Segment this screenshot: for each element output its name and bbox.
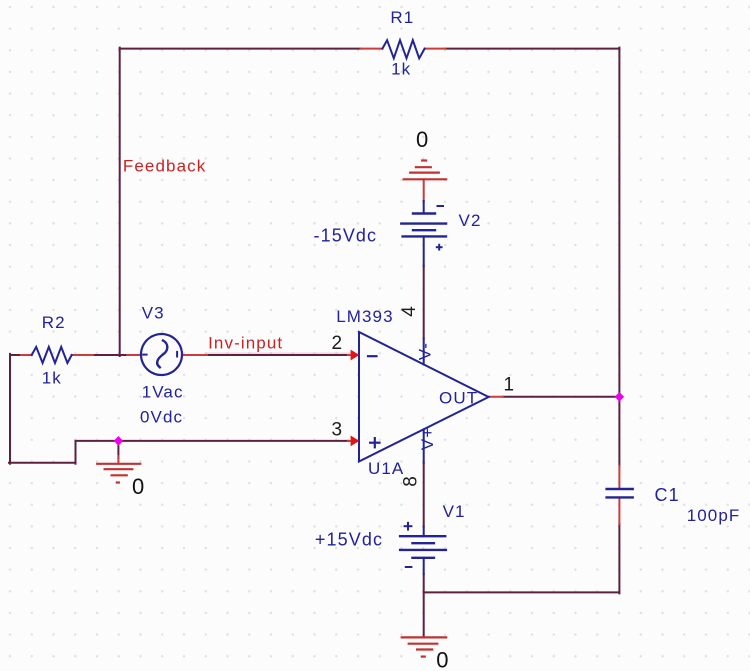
svg-text:8: 8: [401, 476, 422, 487]
svg-text:1k: 1k: [42, 369, 62, 388]
svg-text:LM393: LM393: [336, 307, 393, 326]
svg-text:-15Vdc: -15Vdc: [314, 226, 378, 246]
svg-text:V2: V2: [459, 211, 482, 230]
svg-text:V+: V+: [418, 427, 437, 450]
svg-text:V-: V-: [416, 342, 435, 360]
svg-text:0: 0: [436, 648, 448, 671]
svg-text:1: 1: [504, 375, 515, 396]
svg-text:+15Vdc: +15Vdc: [315, 530, 383, 550]
svg-text:R2: R2: [42, 313, 66, 332]
svg-text:V1: V1: [443, 502, 466, 521]
svg-text:4: 4: [399, 306, 420, 317]
svg-text:C1: C1: [655, 485, 680, 505]
svg-text:2: 2: [332, 333, 343, 354]
svg-text:Feedback: Feedback: [123, 157, 206, 176]
svg-text:3: 3: [332, 419, 343, 440]
svg-text:U1A: U1A: [368, 459, 404, 478]
svg-text:0Vdc: 0Vdc: [140, 408, 183, 427]
svg-text:100pF: 100pF: [687, 506, 741, 525]
svg-text:OUT: OUT: [439, 388, 478, 407]
svg-text:V3: V3: [142, 303, 165, 322]
svg-text:Inv-input: Inv-input: [208, 333, 283, 352]
svg-text:0: 0: [416, 127, 428, 152]
svg-text:1k: 1k: [391, 59, 411, 78]
svg-text:0: 0: [132, 474, 144, 499]
svg-text:1Vac: 1Vac: [142, 382, 184, 401]
svg-text:R1: R1: [390, 8, 414, 27]
